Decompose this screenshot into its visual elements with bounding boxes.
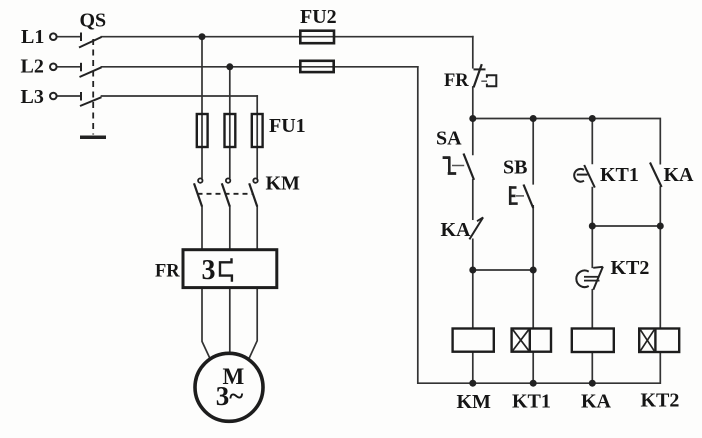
svg-text:KA: KA xyxy=(664,164,695,186)
svg-text:KT1: KT1 xyxy=(512,391,551,413)
svg-text:KM: KM xyxy=(266,173,301,195)
svg-text:KA: KA xyxy=(581,391,612,413)
svg-text:L2: L2 xyxy=(21,56,44,78)
svg-text:KT1: KT1 xyxy=(600,164,639,186)
svg-text:L1: L1 xyxy=(21,26,44,48)
svg-text:SB: SB xyxy=(503,157,527,179)
svg-text:3: 3 xyxy=(202,255,216,286)
svg-text:SA: SA xyxy=(436,128,462,150)
svg-text:KA: KA xyxy=(441,219,472,241)
svg-text:FR: FR xyxy=(444,71,469,91)
svg-text:FR: FR xyxy=(155,261,180,281)
svg-text:QS: QS xyxy=(80,9,107,31)
svg-text:KT2: KT2 xyxy=(611,257,650,279)
svg-text:FU1: FU1 xyxy=(269,115,306,137)
svg-text:3~: 3~ xyxy=(216,381,244,411)
svg-text:KM: KM xyxy=(457,391,492,413)
svg-text:KT2: KT2 xyxy=(641,390,680,412)
svg-text:FU2: FU2 xyxy=(300,6,337,28)
svg-text:L3: L3 xyxy=(21,86,44,108)
